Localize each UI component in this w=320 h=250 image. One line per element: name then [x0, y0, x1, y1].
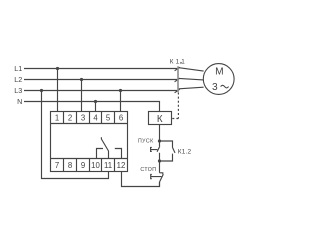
svg-text:M: M: [215, 67, 224, 78]
junction dot L2/terminal3: [80, 78, 83, 81]
wire drop L3 to terminal 6: [120, 91, 122, 112]
svg-text:9: 9: [81, 161, 85, 170]
junction dot below start button: [158, 159, 161, 162]
svg-text:7: 7: [55, 161, 59, 170]
wire drop N to terminal 4: [95, 102, 97, 112]
terminal strip top row line: [51, 123, 128, 125]
svg-text:К 1.1: К 1.1: [170, 58, 185, 65]
aux contact K1.2 arm: [173, 148, 176, 153]
relay device U1 outline: [51, 112, 128, 172]
wire L3 bypass down-right-up to terminal 11: [42, 91, 109, 179]
svg-text:К: К: [157, 114, 163, 125]
wire L1 rail: [24, 68, 177, 70]
svg-text:СТОП: СТОП: [140, 167, 156, 173]
wire drop L1 to terminal 1: [57, 69, 59, 112]
K1.1 contact slash phase L3: [175, 89, 180, 93]
svg-text:L1: L1: [14, 64, 22, 73]
svg-text:5: 5: [106, 113, 111, 122]
wire K coil to start button node: [159, 125, 161, 142]
motor M: [203, 64, 234, 95]
push button SB2 СТОП (NC): top lead and fixed hook: [160, 161, 163, 174]
push button SB1 ПУСК (NO): leads: [159, 141, 161, 161]
wire drop L2 to terminal 3: [81, 80, 83, 112]
junction dot above start button: [158, 139, 161, 142]
aux contact K1.2 branch wires: [160, 141, 173, 161]
wire phase L3 to motor: [179, 87, 204, 89]
svg-text:3: 3: [81, 113, 85, 122]
terminal dividers bottom row: [64, 159, 115, 172]
svg-text:L3: L3: [14, 86, 22, 95]
SB2 bottom lead: [159, 182, 161, 187]
contactor coil K box: [149, 112, 172, 125]
internal changeover contact of U1 (pins 10-11-12): [97, 137, 122, 158]
wire N rail, turns down to contactor coil K: [24, 102, 160, 112]
wire phase L2 to motor: [179, 78, 204, 80]
terminal strip bottom row line: [51, 158, 128, 160]
motor label ~: [221, 85, 229, 88]
wire phase L1 to motor: [179, 68, 204, 71]
svg-text:8: 8: [68, 161, 72, 170]
junction dot L1/terminal1: [56, 67, 59, 70]
wire L3 rail: [24, 90, 177, 92]
junction dot L3/terminal6: [119, 89, 122, 92]
svg-text:10: 10: [91, 161, 100, 170]
junction dot L3 bypass: [40, 89, 43, 92]
SB1 moving contact arm: [157, 146, 160, 152]
linkage dashed to coil K: [172, 93, 179, 119]
svg-text:1: 1: [55, 113, 59, 122]
svg-text:11: 11: [104, 161, 112, 170]
svg-text:L2: L2: [14, 75, 22, 84]
svg-text:4: 4: [93, 113, 98, 122]
SB2 moving contact arm: [160, 174, 164, 182]
svg-text:2: 2: [68, 113, 72, 122]
wire L2 rail: [24, 79, 177, 81]
SB1 actuator cap and stem: [151, 147, 158, 151]
svg-text:К1.2: К1.2: [178, 149, 192, 156]
K1.1 mechanical linkage bar (solid): [177, 66, 179, 92]
svg-text:N: N: [17, 97, 22, 106]
SB2 actuator cap and stem: [151, 175, 162, 179]
K1.1 contact slash phase L1: [175, 67, 180, 71]
junction dot N/terminal4: [94, 100, 97, 103]
svg-text:6: 6: [119, 113, 123, 122]
svg-text:ПУСК: ПУСК: [138, 139, 154, 145]
terminal dividers top row: [64, 112, 115, 124]
svg-text:3: 3: [212, 82, 218, 93]
K1.1 contact slash phase L2: [175, 78, 180, 82]
wire terminal 12 down-right-up to stop button: [122, 172, 160, 187]
svg-text:12: 12: [117, 161, 126, 170]
